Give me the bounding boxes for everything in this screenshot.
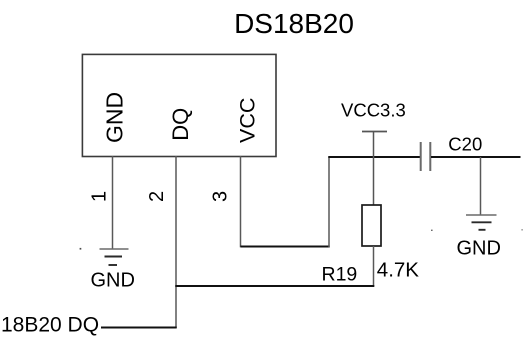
label C20 [448, 133, 482, 154]
resistor R19 body [362, 205, 381, 246]
capacitor C20 plate left [420, 142, 422, 171]
svg-text:4.7K: 4.7K [377, 259, 419, 282]
wire pin1 to ground [112, 156, 114, 249]
label VCC3.3 [341, 100, 406, 121]
node label 18B20 DQ [1, 314, 99, 337]
wire riser to VCC rail [328, 157, 330, 248]
stray speck near left ground [80, 248, 82, 250]
wire resistor bottom [373, 246, 375, 287]
wire drop to right ground [480, 157, 482, 215]
svg-text:GND: GND [91, 270, 135, 292]
ground symbol (right) [466, 215, 497, 230]
IC U1 DS18B20 box [82, 54, 276, 156]
label 4.7K [377, 259, 419, 282]
pin label VCC (pin 3) [236, 98, 260, 143]
pin label DQ (pin 2) [168, 108, 193, 141]
pin number 3 [210, 191, 232, 202]
svg-text:GND: GND [457, 238, 501, 260]
pin number 2 [146, 191, 168, 202]
svg-text:GND: GND [102, 92, 128, 143]
stray speck right edge [521, 229, 522, 230]
svg-text:3: 3 [210, 191, 232, 202]
svg-text:DS18B20: DS18B20 [234, 8, 354, 39]
wire 18B20 DQ horizontal [101, 327, 177, 329]
title DS18B20 [234, 8, 354, 39]
pin number 1 [89, 191, 111, 202]
stray speck left of right ground [431, 230, 433, 231]
svg-text:C20: C20 [448, 133, 482, 154]
svg-text:R19: R19 [322, 264, 358, 286]
capacitor C20 plate right [429, 142, 431, 171]
svg-text:DQ: DQ [168, 108, 193, 141]
wire pin3 horizontal to riser [241, 246, 330, 248]
svg-text:1: 1 [89, 191, 111, 202]
svg-text:18B20 DQ: 18B20 DQ [1, 314, 99, 337]
wire VCC rail horizontal (left of C20) [328, 156, 420, 158]
ground symbol (left, below pin 1) [100, 249, 129, 265]
svg-text:2: 2 [146, 191, 168, 202]
pin label GND (pin 1) [102, 92, 128, 143]
wire VCC rail right of C20 [431, 156, 521, 158]
wire pin2 vertical (DQ) [175, 156, 177, 328]
wire pin3 vertical (VCC) [240, 156, 242, 247]
wire resistor bottom to DQ [175, 285, 374, 287]
svg-text:VCC3.3: VCC3.3 [341, 100, 406, 121]
svg-text:VCC: VCC [236, 98, 260, 143]
label GND (left ground) [91, 270, 135, 292]
label GND (right ground) [457, 238, 501, 260]
power symbol VCC3.3 [362, 132, 387, 206]
label R19 [322, 264, 358, 286]
